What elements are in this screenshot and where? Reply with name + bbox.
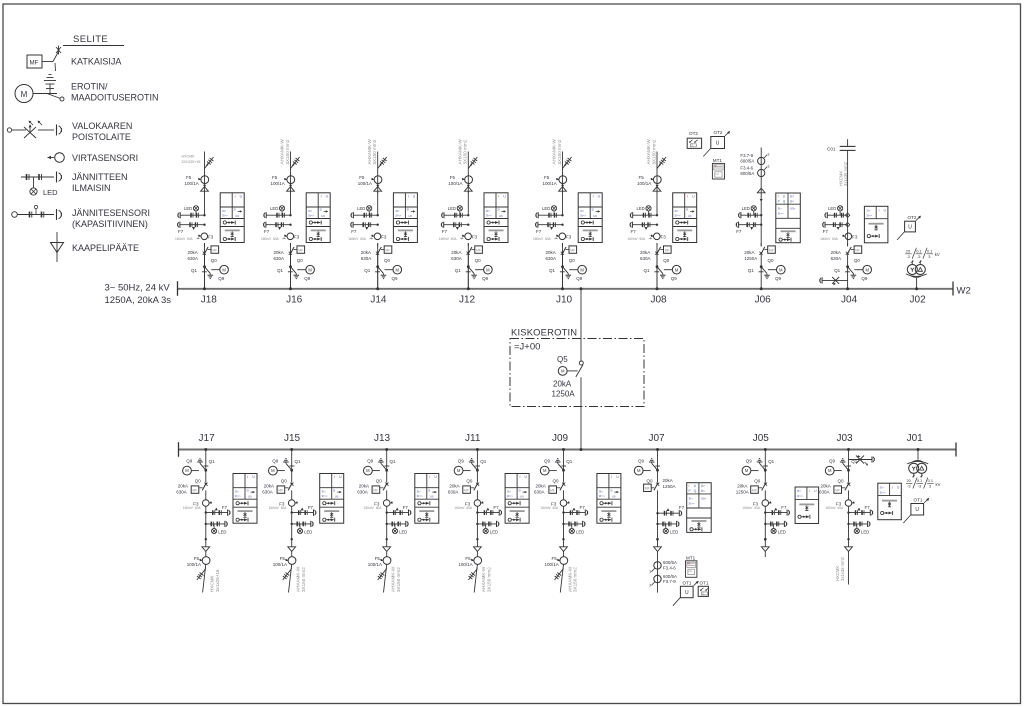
svg-text:60A: 60A xyxy=(466,506,473,510)
svg-text:3I>: 3I> xyxy=(486,209,491,213)
svg-text:3I>: 3I> xyxy=(322,490,327,494)
svg-text:F5: F5 xyxy=(280,556,286,561)
svg-text:KISKOEROTIN: KISKOEROTIN xyxy=(511,327,577,338)
node J07 mid xyxy=(656,538,659,541)
cable termination J17 xyxy=(202,547,210,552)
svg-text:3~ 50Hz, 24 kV: 3~ 50Hz, 24 kV xyxy=(105,283,171,294)
svg-text:3I: 3I xyxy=(497,208,500,212)
svg-text:LED: LED xyxy=(828,206,836,211)
svg-text:LED: LED xyxy=(184,206,192,211)
svg-text:Q0: Q0 xyxy=(854,258,861,263)
svg-text:J06: J06 xyxy=(755,295,772,306)
svg-text:HXCMK: HXCMK xyxy=(210,574,215,592)
svg-text:I: I xyxy=(235,194,236,198)
svg-text:D: D xyxy=(702,592,704,596)
busbar rating text xyxy=(105,283,172,306)
svg-text:AHXAMK-W: AHXAMK-W xyxy=(481,566,486,592)
voltage indicator line J12 xyxy=(442,212,470,218)
bay J04 line xyxy=(847,150,849,246)
wire J05 mid xyxy=(764,506,766,547)
svg-text:M: M xyxy=(561,369,565,374)
svg-text:F5: F5 xyxy=(194,556,200,561)
svg-text:Q0: Q0 xyxy=(838,479,845,484)
svg-text:20kA: 20kA xyxy=(640,250,650,255)
current sensor F5 J13 xyxy=(368,551,391,567)
current sensor F3 J03 xyxy=(826,500,855,510)
svg-text:LED: LED xyxy=(742,206,750,211)
svg-text:M: M xyxy=(637,468,641,473)
svg-text:SELITE: SELITE xyxy=(73,34,108,45)
svg-text:20kA: 20kA xyxy=(546,250,556,255)
legend current sensor symbol xyxy=(48,153,65,163)
svg-text:OT1: OT1 xyxy=(683,581,692,586)
svg-text:(KAPASITIIVINEN): (KAPASITIIVINEN) xyxy=(72,219,148,229)
current sensor F5 J08 xyxy=(637,175,661,187)
svg-text:20kA: 20kA xyxy=(359,484,369,489)
svg-text:KAAPELIPÄÄTE: KAAPELIPÄÄTE xyxy=(72,243,139,253)
cable screen J11 xyxy=(468,569,477,581)
cable J11 xyxy=(474,564,477,592)
svg-text:MF: MF xyxy=(752,488,757,492)
voltage indicator line J10 xyxy=(536,212,564,218)
svg-text:3I: 3I xyxy=(686,208,689,212)
cable screen J15 xyxy=(283,569,292,581)
svg-text:F3.7-9: F3.7-9 xyxy=(740,153,753,158)
bay J10 line xyxy=(562,243,564,289)
cable label J10 xyxy=(552,139,562,165)
svg-text:600/5A: 600/5A xyxy=(663,560,677,565)
svg-text:3I>>: 3I>> xyxy=(395,213,401,217)
svg-text:MF: MF xyxy=(30,60,39,67)
svg-text:LED: LED xyxy=(576,530,584,535)
cable label J04 xyxy=(839,161,849,186)
voltage indicator LED J10 xyxy=(542,206,557,216)
svg-text:U<: U< xyxy=(790,199,794,203)
svg-text:C01: C01 xyxy=(827,146,836,151)
svg-text:160mV: 160mV xyxy=(183,506,194,510)
svg-text:F5: F5 xyxy=(450,175,456,180)
svg-text:M: M xyxy=(271,468,275,473)
svg-text:POISTOLAITE: POISTOLAITE xyxy=(72,132,131,142)
cable screen J09 xyxy=(555,569,564,581)
voltage sensor F7 J16 xyxy=(261,222,292,241)
node J07 bus junction xyxy=(656,448,659,451)
svg-text:JÄNNITESENSORI: JÄNNITESENSORI xyxy=(72,208,150,218)
current transformer F3.7-9 xyxy=(740,153,769,165)
cable J12 xyxy=(467,152,469,194)
svg-text:3I>: 3I> xyxy=(395,209,400,213)
svg-text:Q9: Q9 xyxy=(482,276,489,281)
svg-text:3I>: 3I> xyxy=(599,490,604,494)
svg-text:Q0: Q0 xyxy=(281,479,288,484)
svg-text:Q1: Q1 xyxy=(834,268,841,273)
svg-text:3I>>: 3I>> xyxy=(235,494,241,498)
svg-text:LED: LED xyxy=(490,530,498,535)
voltage transformer ratio J01 xyxy=(906,478,941,489)
svg-text:3I>>: 3I>> xyxy=(797,494,803,498)
circuit breaker Q0 J07 xyxy=(644,470,676,547)
protection box J13 xyxy=(415,474,439,524)
svg-text:3I>>: 3I>> xyxy=(507,494,513,498)
svg-text:F7: F7 xyxy=(736,229,742,234)
svg-text:J09: J09 xyxy=(552,433,569,444)
svg-text:EROTIN/: EROTIN/ xyxy=(71,82,108,92)
voltage sensor F7 J13 xyxy=(386,505,411,516)
svg-text:J18: J18 xyxy=(201,295,218,306)
voltage indicator LED J16 xyxy=(270,206,285,216)
svg-text:Q9: Q9 xyxy=(775,276,782,281)
disconnector Q1 earthing Q9 J17 xyxy=(183,450,216,476)
svg-text:3I>>: 3I>> xyxy=(599,494,605,498)
svg-text:100/1A: 100/1A xyxy=(368,562,382,567)
svg-text:0.1: 0.1 xyxy=(927,248,932,253)
svg-text:20kA: 20kA xyxy=(831,250,841,255)
svg-text:3X150 mm2: 3X150 mm2 xyxy=(557,139,562,164)
svg-text:ILMAISIN: ILMAISIN xyxy=(72,183,111,193)
svg-text:3X150 mm2: 3X150 mm2 xyxy=(487,567,492,592)
voltage sensor F7 J08 xyxy=(628,222,659,241)
svg-text:3X1X25+16: 3X1X25+16 xyxy=(182,160,201,164)
svg-text:I: I xyxy=(687,194,688,198)
svg-text:Q1: Q1 xyxy=(364,268,371,273)
svg-text:160mV: 160mV xyxy=(454,506,465,510)
cable termination J14 xyxy=(374,187,382,192)
svg-text:I: I xyxy=(689,484,690,488)
svg-text:Q1: Q1 xyxy=(455,268,462,273)
protection box J10 xyxy=(578,193,602,243)
svg-text:100/1A: 100/1A xyxy=(187,562,201,567)
disconnector Q1 earthing Q9 J11 xyxy=(454,450,487,476)
circuit breaker Q0 J09 xyxy=(534,470,565,500)
svg-text:3I: 3I xyxy=(610,488,613,492)
node J11 bus junction xyxy=(476,448,479,451)
svg-text:I: I xyxy=(334,475,335,479)
cable termination J09 xyxy=(560,547,568,552)
svg-text:100/1A: 100/1A xyxy=(637,181,651,186)
svg-text:Q0: Q0 xyxy=(376,479,383,484)
svg-text:LED: LED xyxy=(637,206,645,211)
cable label J03 xyxy=(835,556,845,581)
svg-text:Q9: Q9 xyxy=(458,459,465,464)
bay J14 line xyxy=(377,243,379,289)
svg-text:F7: F7 xyxy=(442,229,448,234)
svg-text:KATKAISIJA: KATKAISIJA xyxy=(71,57,121,67)
svg-text:Q9: Q9 xyxy=(186,459,193,464)
disconnector Q1 earthing Q9 J09 xyxy=(540,450,573,476)
cable screen J16 xyxy=(291,157,300,169)
svg-text:100/1A: 100/1A xyxy=(273,562,287,567)
node J15 bus junction xyxy=(290,448,293,451)
legend text VALOKAAREN POISTOLAITE xyxy=(72,121,132,142)
svg-text:MF: MF xyxy=(570,248,575,252)
svg-text:60A: 60A xyxy=(553,506,560,510)
svg-text:20kA: 20kA xyxy=(361,250,371,255)
disconnector Q1 earthing Q9 J14 xyxy=(364,265,401,288)
current sensor F5 J18 xyxy=(185,175,209,187)
svg-text:F3.4-6: F3.4-6 xyxy=(663,566,676,571)
svg-text:MF: MF xyxy=(645,487,650,491)
current sensor F3 J05 xyxy=(742,500,771,510)
protection box J03 xyxy=(878,483,902,520)
svg-text:3x1x35 mm2: 3x1x35 mm2 xyxy=(840,556,845,581)
cable termination J15 xyxy=(288,547,296,552)
svg-text:20kA: 20kA xyxy=(188,250,198,255)
svg-text:U0: U0 xyxy=(430,495,434,499)
current sensor F3 J14 xyxy=(371,233,387,240)
svg-text:I: I xyxy=(892,485,893,489)
svg-text:3I: 3I xyxy=(428,488,431,492)
svg-text:Q9: Q9 xyxy=(829,459,836,464)
svg-text:J12: J12 xyxy=(459,295,476,306)
disconnector Q1 earthing Q9 J16 xyxy=(277,265,314,288)
current sensor F3 J17 xyxy=(183,500,212,510)
svg-text:3: 3 xyxy=(929,484,931,489)
svg-text:630A: 630A xyxy=(448,490,459,495)
svg-text:D: D xyxy=(691,143,693,147)
svg-text:1250A: 1250A xyxy=(663,484,676,489)
svg-text:I: I xyxy=(611,475,612,479)
interlock box OT1 with U (J07) xyxy=(673,581,699,606)
svg-text:F3: F3 xyxy=(566,235,572,240)
svg-text:F5: F5 xyxy=(359,175,365,180)
cable termination J16 xyxy=(287,187,295,192)
svg-text:20kA: 20kA xyxy=(663,478,673,483)
svg-text:VALOKAAREN: VALOKAAREN xyxy=(72,121,132,131)
voltage indicator line J09 xyxy=(562,521,585,527)
svg-text:J01: J01 xyxy=(907,433,924,444)
bay J02 line xyxy=(916,278,918,289)
svg-text:M: M xyxy=(745,468,749,473)
interlock box OT2 with U xyxy=(703,130,730,156)
protection box J05 xyxy=(795,487,819,524)
svg-text:3I>>: 3I>> xyxy=(675,213,681,217)
node J18 bus junction xyxy=(203,287,206,290)
bay J06 line xyxy=(760,148,762,247)
disconnector Q1 earthing Q9 J12 xyxy=(455,265,492,288)
svg-text:3I: 3I xyxy=(518,488,521,492)
svg-text:F7: F7 xyxy=(536,229,542,234)
protection box J16 xyxy=(306,193,330,243)
svg-text:F7: F7 xyxy=(222,505,228,510)
cable screen J10 xyxy=(563,157,572,169)
svg-text:3I>: 3I> xyxy=(507,490,512,494)
cable screen J18 xyxy=(205,157,214,169)
svg-text:3I: 3I xyxy=(407,208,410,212)
interlock box OT2 with U (J02) xyxy=(897,215,921,240)
svg-text:3x1x25+16: 3x1x25+16 xyxy=(215,569,220,592)
voltage sensor F7 J05 xyxy=(764,505,789,516)
node J13 bus junction xyxy=(385,448,388,451)
svg-text:160mV: 160mV xyxy=(175,237,186,241)
current sensor F5 J09 xyxy=(545,551,568,567)
svg-text:630A: 630A xyxy=(274,256,285,261)
svg-text:60A: 60A xyxy=(832,237,839,241)
svg-text:LED: LED xyxy=(43,188,58,197)
svg-text:0.1: 0.1 xyxy=(916,248,921,253)
svg-text:3: 3 xyxy=(768,165,770,169)
svg-text:LED: LED xyxy=(861,530,869,535)
svg-text:3I>>: 3I>> xyxy=(486,213,492,217)
current sensor F3 J13 xyxy=(364,500,393,510)
earthing switch with voltage detector J04 xyxy=(820,277,848,285)
svg-text:Q9: Q9 xyxy=(861,276,868,281)
svg-text:MF: MF xyxy=(298,248,303,252)
svg-text:P: P xyxy=(778,199,780,203)
svg-text:I: I xyxy=(498,194,499,198)
svg-text:60A: 60A xyxy=(195,506,202,510)
disconnector Q1 earthing Q9 J18 xyxy=(191,265,228,288)
node J05 mid2 xyxy=(764,538,767,541)
protection box J18 xyxy=(220,193,244,243)
cable termination J11 xyxy=(474,547,482,552)
svg-text:LED: LED xyxy=(218,530,226,535)
svg-text:F7: F7 xyxy=(631,229,637,234)
cable J18 xyxy=(204,152,206,194)
svg-text:MF: MF xyxy=(665,248,670,252)
cable J16 xyxy=(290,152,292,194)
voltage sensor F7 J14 xyxy=(348,222,379,241)
svg-text:U0: U0 xyxy=(612,495,616,499)
svg-text:Q0: Q0 xyxy=(663,258,670,263)
cable J10 xyxy=(562,152,564,194)
cable termination J10 xyxy=(559,187,567,192)
svg-text:Q0: Q0 xyxy=(195,479,202,484)
current sensor F3 J11 xyxy=(454,500,483,510)
cable label J16 xyxy=(280,139,290,165)
svg-text:20kA: 20kA xyxy=(264,484,274,489)
svg-text:800/5A: 800/5A xyxy=(740,171,754,176)
svg-text:LED: LED xyxy=(304,530,312,535)
svg-text:M: M xyxy=(580,267,584,272)
svg-text:LED: LED xyxy=(270,206,278,211)
svg-text:160mV: 160mV xyxy=(820,237,831,241)
svg-text:AHXAMK-W: AHXAMK-W xyxy=(296,566,301,592)
svg-text:3I: 3I xyxy=(319,208,322,212)
wire J17 mid xyxy=(205,506,207,547)
svg-text:OT2: OT2 xyxy=(908,215,917,220)
svg-text:Q9: Q9 xyxy=(218,276,225,281)
svg-text:20kA: 20kA xyxy=(449,484,459,489)
current sensor F5 J15 xyxy=(273,551,296,567)
voltage indicator line J03 xyxy=(847,521,870,527)
svg-text:Q1: Q1 xyxy=(209,459,216,464)
cable termination J07 xyxy=(654,547,662,552)
svg-text:100/1A: 100/1A xyxy=(458,562,472,567)
svg-text:W2: W2 xyxy=(957,286,971,297)
legend text JÄNNITESENSORI (KAPASITIIVINEN) xyxy=(72,208,150,229)
svg-text:3I>>: 3I>> xyxy=(866,214,872,218)
voltage indicator LED J11 xyxy=(483,524,498,535)
voltage indicator line J13 xyxy=(386,521,409,527)
svg-text:630A: 630A xyxy=(451,256,462,261)
svg-text:U0>: U0> xyxy=(701,496,707,500)
svg-text:M: M xyxy=(543,468,547,473)
svg-text:Q0: Q0 xyxy=(768,258,775,263)
node J01 bus junction xyxy=(917,448,920,451)
svg-text:F7: F7 xyxy=(351,229,357,234)
cable label J12 xyxy=(458,139,468,165)
protection box J15 xyxy=(320,474,344,524)
svg-text:3I>: 3I> xyxy=(880,485,885,489)
voltage indicator line J05 xyxy=(764,521,787,527)
svg-text:Q0: Q0 xyxy=(475,258,482,263)
svg-text:3: 3 xyxy=(649,583,651,587)
svg-text:F5: F5 xyxy=(465,556,471,561)
svg-text:U0>: U0> xyxy=(790,207,796,211)
cable J17 xyxy=(203,564,206,592)
svg-text:OT1: OT1 xyxy=(914,498,923,503)
voltage indicator LED J09 xyxy=(569,524,584,535)
svg-text:OT2: OT2 xyxy=(689,131,698,136)
voltage transformer ratio J02 xyxy=(905,248,940,259)
svg-text:100/1A: 100/1A xyxy=(358,181,372,186)
node J08 bus junction xyxy=(656,287,659,290)
protection box J12 xyxy=(484,193,508,243)
svg-text:MF: MF xyxy=(385,248,390,252)
cable label J13 xyxy=(391,566,401,592)
cable screen J12 xyxy=(468,157,477,169)
svg-text:20kA: 20kA xyxy=(821,484,831,489)
voltage indicator line J17 xyxy=(205,521,228,527)
svg-text:F3.4-6: F3.4-6 xyxy=(740,166,753,171)
svg-text:Q9: Q9 xyxy=(671,276,678,281)
wire J10 upper xyxy=(562,191,564,215)
voltage sensor F7 J04 xyxy=(820,222,850,241)
voltage indicator line J15 xyxy=(291,521,314,527)
svg-text:0.1: 0.1 xyxy=(928,478,933,483)
protection box J17 xyxy=(233,474,257,524)
svg-text:LED: LED xyxy=(542,206,550,211)
interlock box OT1 with arrows (J07) xyxy=(698,581,709,597)
svg-text:MF: MF xyxy=(464,488,469,492)
svg-text:Q9: Q9 xyxy=(544,459,551,464)
disconnector Q1 earthing Q9 J08 xyxy=(644,265,681,288)
svg-text:20kA: 20kA xyxy=(553,380,572,389)
circuit breaker Q0 J17 xyxy=(176,470,207,500)
legend text EROTIN/MAADOITUSEROTIN xyxy=(71,82,159,103)
svg-text:3I>: 3I> xyxy=(675,209,680,213)
cable screen J08 xyxy=(657,157,666,169)
cable label J09 xyxy=(567,566,577,592)
svg-text:3X150 mm2: 3X150 mm2 xyxy=(301,567,306,592)
svg-text:Q1: Q1 xyxy=(748,268,755,273)
current sensor F5 J16 xyxy=(271,175,295,187)
svg-text:LED: LED xyxy=(448,206,456,211)
svg-text:20kA: 20kA xyxy=(274,250,284,255)
voltage sensor F7 J12 xyxy=(439,222,470,241)
svg-text:Q0: Q0 xyxy=(384,258,391,263)
svg-text:F7: F7 xyxy=(493,505,499,510)
disconnector Q1 earthing Q9 J03 xyxy=(825,450,858,476)
svg-text:Q0: Q0 xyxy=(211,258,218,263)
svg-text:60A: 60A xyxy=(838,506,845,510)
svg-text:630A: 630A xyxy=(361,256,372,261)
svg-text:Q1: Q1 xyxy=(191,268,198,273)
bay J01 line xyxy=(917,450,919,460)
svg-text:LED: LED xyxy=(399,530,407,535)
svg-text:F3: F3 xyxy=(852,235,858,240)
svg-text:I: I xyxy=(879,209,880,213)
voltage indicator LED J04 xyxy=(828,206,843,216)
svg-text:20kA: 20kA xyxy=(178,484,188,489)
svg-text:600/5A: 600/5A xyxy=(740,159,754,164)
svg-text:I: I xyxy=(809,489,810,493)
cable termination J08 xyxy=(653,187,661,192)
svg-text:3I>>: 3I>> xyxy=(222,213,228,217)
cable J13 xyxy=(384,564,387,592)
voltage sensor F7 J07 xyxy=(656,505,684,516)
svg-text:U0: U0 xyxy=(688,214,692,218)
